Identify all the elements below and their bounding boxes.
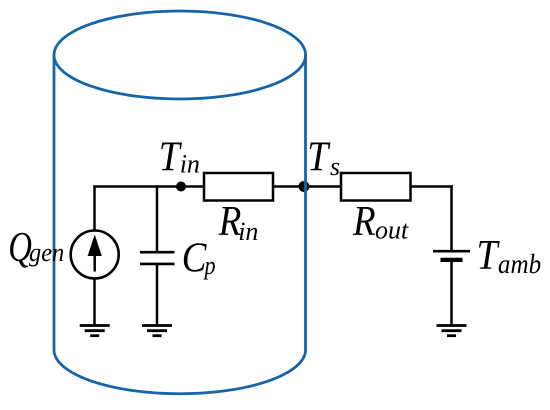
svg-text:out: out <box>375 216 409 245</box>
battery cell body: left side <box>53 55 56 351</box>
ground under Qgen <box>80 326 110 336</box>
capacitor Cp: top plate <box>140 251 175 254</box>
wire: from Rout to right corner <box>411 185 453 188</box>
wire: between Rin and Rout through node Ts <box>273 185 341 188</box>
current source Qgen: circle <box>71 231 119 279</box>
wire: Tamb branch vertical lower <box>450 261 453 325</box>
wire: Qgen branch vertical lower <box>93 279 96 325</box>
label Tin <box>159 133 200 180</box>
svg-text:s: s <box>330 152 340 181</box>
svg-text:p: p <box>203 252 216 280</box>
wire: Cp branch vertical upper <box>156 187 159 252</box>
svg-text:R: R <box>352 198 376 245</box>
label Ts <box>307 133 340 181</box>
voltage source Tamb: short thick plate <box>441 258 463 262</box>
label Qgen <box>8 224 64 271</box>
svg-text:C: C <box>182 234 207 281</box>
node Tin junction dot <box>176 182 186 192</box>
resistor Rout box <box>341 173 411 201</box>
battery cell body: right side <box>304 55 307 351</box>
battery cell body: bottom arc <box>54 351 306 394</box>
svg-text:T: T <box>477 231 501 278</box>
ground under Tamb <box>437 326 467 336</box>
svg-text:amb: amb <box>498 249 541 279</box>
svg-text:in: in <box>180 150 200 179</box>
label Rout <box>352 198 409 245</box>
wire: Qgen branch vertical upper <box>93 185 96 230</box>
label Tamb <box>477 231 542 279</box>
ground under Cp <box>142 326 172 336</box>
current source Qgen: arrow shaft <box>93 250 96 272</box>
svg-text:in: in <box>238 217 258 246</box>
label Cp <box>182 234 216 281</box>
wire: top-left horizontal from Qgen corner to Rin <box>93 185 204 188</box>
wire: Cp branch vertical lower <box>156 265 159 325</box>
wire: Tamb branch vertical upper <box>450 185 453 250</box>
svg-text:gen: gen <box>29 239 64 267</box>
voltage source Tamb: long thin plate <box>433 250 470 253</box>
capacitor Cp: bottom plate <box>140 263 175 266</box>
resistor Rin box <box>204 173 273 201</box>
current source Qgen: arrow head <box>88 235 102 257</box>
svg-text:T: T <box>307 133 331 180</box>
label Rin <box>218 198 259 246</box>
node Ts junction dot <box>299 181 310 192</box>
battery cell body: top ellipse <box>54 11 306 99</box>
